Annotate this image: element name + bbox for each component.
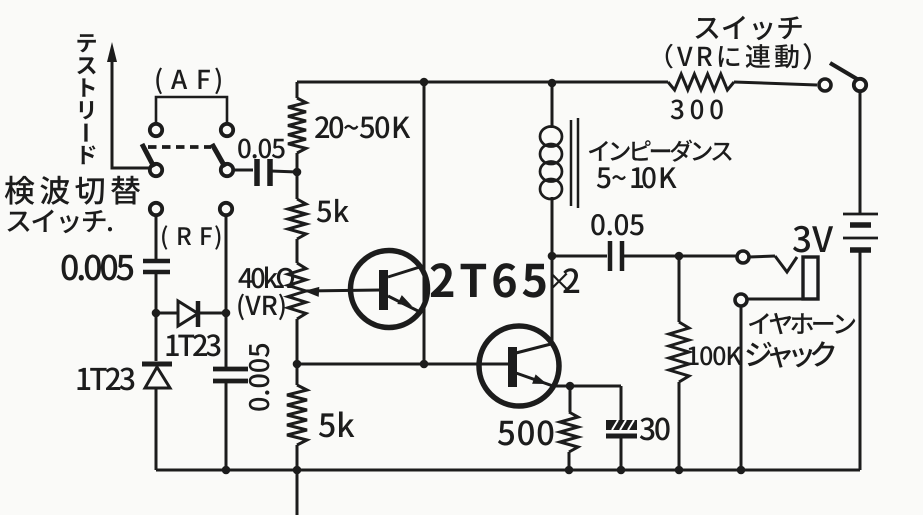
transformer T1 core line A [570,120,573,206]
junction node dot 3 at 297,172 [293,168,302,177]
switch gang dashed link [148,145,211,149]
wire 500 to bottom bus [568,452,571,470]
junction node dot 4 at 297,364 [293,360,302,369]
resistor R 500 [560,412,578,452]
power switch lever [830,63,857,79]
label impedance [589,140,732,162]
wire switch pivot to battery [859,91,862,213]
wire from 300 resistor to switch contact [734,82,817,85]
transistor Q1 2T65 body circle [351,251,428,328]
label jack-jp [746,341,834,368]
label x2 times [551,273,568,290]
label 30 [640,418,670,441]
transistor Q2 2T65 body circle [479,326,559,406]
label VR-renndou [666,44,799,69]
junction node dot 14 at 621,470 [617,466,626,475]
label test-lead char テ [77,34,96,52]
transformer T1 winding loop 2 [540,144,562,164]
diode D2 1T23 cathode bar [142,362,172,367]
transformer T1 winding loop 1 [540,127,562,147]
junction node dot 5 at 424,364 [420,360,429,369]
label 0.05 right [591,214,643,235]
label 100K [688,346,742,365]
jack plug body rectangle [803,257,818,299]
label test-lead char ド [82,145,96,164]
capacitor C 0.005 left plate B [143,270,170,275]
capacitor C 0.05 right plate A [608,241,613,271]
battery B1 short plate 2 [850,247,871,253]
switch lever left [142,144,154,167]
transistor Q1 base bar [379,270,388,310]
capacitor C 0.05 left plate B [267,159,273,186]
resistor R 20~50K [288,98,306,153]
label 0.005 vertical [249,344,270,411]
junction node dot 7 at 679,256 [675,252,684,261]
label (AF) [156,68,221,95]
wire RF left contact down to 0.005 [155,216,158,259]
label switch-jp [7,210,112,234]
resistor R 300 [668,74,734,90]
junction node dot 1 at 424,82 [420,78,429,87]
wire node down to 100K [678,256,681,322]
junction node dot 9 at 156,313 [152,309,161,318]
label 1T23 vertical diode [78,368,135,391]
label 0.005 left [62,255,134,281]
wire jack lower contact [748,298,803,301]
wire node to 0.05 cap right [552,255,607,258]
junction node dot 12 at 297,470 [293,466,302,475]
power switch pivot circle [854,79,866,91]
capacitor C 0.005 left plate A [143,259,170,264]
label 3V [793,226,833,253]
wire 0.05 cap to 100K node [624,255,736,258]
junction node dot 8 at 570,386 [566,382,575,391]
capacitor C 0.005 second plate B [213,379,248,384]
junction node dot 2 at 552,83 [548,79,557,88]
transistor Q2 collector lead [516,344,551,353]
potentiometer VR 40kohm element [288,263,306,319]
wire jack upper contact to spring [749,256,775,257]
wire jack lower contact to bottom bus [740,306,743,470]
label earphone [749,313,855,334]
switch pole right circle [221,164,233,176]
junction node dot 16 at 741,470 [737,466,746,475]
VR wiper arrow [304,287,319,297]
test lead arrow shaft [112,58,150,168]
wire emitter node down to 500 [569,386,572,412]
wire RF right contact down to cap2 [225,216,228,367]
junction node dot 6 at 552,256 [548,252,557,261]
wire between VR and lower node [296,319,299,385]
wire lower node to Q2 base [297,363,510,366]
resistor R 5k upper [288,199,306,239]
wire between 5k and VR [296,239,299,263]
resistor R 100K [669,322,689,382]
junction node dot 10 at 226,313 [222,309,231,318]
diode D2 1T23 triangle [145,367,170,388]
wire battery to bottom bus corner [859,252,862,470]
battery B1 long plate 1 [843,213,878,216]
switch AF bracket [156,97,227,123]
switch lever right [212,144,225,167]
wire switch pole to 0.05 cap [233,169,253,172]
wire 5k lower to bottom bus and probe stub [296,445,299,515]
wire left bias chain top [296,82,299,98]
jack upper contact circle [737,251,749,263]
label test-lead char ス [77,57,96,74]
switch contact RF-right circle [220,203,232,215]
label 5k upper [317,199,349,223]
label test-lead char ト [82,78,94,96]
capacitor C 0.05 left plate A [254,159,260,186]
transistor Q2 base bar [508,347,517,387]
transistor Q1 emitter lead [388,296,422,313]
capacitor C 30 lower plate [606,434,637,439]
transformer T1 winding loop 4 [540,179,562,199]
capacitor C 0.005 second plate A [213,367,248,372]
switch contact AF-left circle [150,124,162,136]
battery B1 short plate 1 [850,222,871,228]
label 1T23 horizontal diode [167,334,221,356]
label (VR) [238,294,284,321]
wire D2 anode to bottom bus corner [155,388,158,470]
wire 100K to bottom bus [678,382,681,470]
wire top supply bus [297,81,668,84]
wire bottom common bus [156,469,860,472]
label 500 [498,420,554,445]
jack spring contact vee [775,256,797,272]
transistor Q2 emitter arrow [532,374,547,384]
transistor Q1 collector lead [388,266,423,277]
transistor Q1 emitter arrow [397,295,412,306]
wire transformer primary to 0.05 node and Q2 collector [551,197,554,345]
switch pole left circle [150,164,162,176]
label 5k lower [319,412,355,438]
switch contact RF-left circle [150,203,162,215]
wire between 20~50K and 5k [296,153,299,199]
test lead arrowhead [107,42,117,62]
capacitor C 30 hatched plate [606,420,637,430]
label 0.05 left [238,139,284,159]
wire VR wiper to Q1 base [304,290,381,291]
resistor R 5k lower [287,385,307,445]
label 40kohm [239,267,295,289]
label test-lead char リ [80,101,93,119]
wire diode node down to D2 [155,313,158,361]
wire diode node to D1 anode [156,312,178,315]
battery B1 long plate 2 [843,237,878,240]
wire 100K node to jack contact [680,255,737,258]
wire bus to transformer primary [551,83,554,128]
wire 30 cap to bottom bus [620,438,623,470]
label VR-renndou close paren [803,43,811,70]
label x2 digit [563,268,579,293]
label 5~10K [597,167,677,188]
label (RF) [162,225,220,250]
junction node dot 11 at 226,470 [222,466,231,475]
junction node dot 15 at 679,470 [675,466,684,475]
wire D1 cathode to right chain [200,312,226,315]
switch contact AF-right circle [221,124,233,136]
transformer T1 winding loop 3 [540,162,562,182]
transformer T1 core line B [577,118,580,208]
capacitor C 0.05 right plate B [620,241,625,271]
label 20~50K [315,116,410,138]
junction node dot 13 at 569,470 [565,466,574,475]
diode D1 1T23 cathode bar [196,301,201,327]
wire emitter node to 30 cap branch [570,386,621,420]
label 300 [671,100,723,120]
label 2T65 [431,263,546,298]
label switch top [696,16,802,41]
label test-lead char ー [84,124,88,142]
diode D1 1T23 triangle [178,301,198,326]
wire vertical collector rail Q1 [423,82,426,364]
wire 0.005 to diode node [155,274,158,313]
jack lower contact circle [735,294,747,306]
wire 0.05 cap to bias chain node [271,171,297,172]
wire cap2 to bottom bus [225,383,228,470]
transistor Q2 emitter lead [516,373,570,386]
power switch contact circle [819,79,831,91]
label kenpa-kirikae [5,176,140,205]
